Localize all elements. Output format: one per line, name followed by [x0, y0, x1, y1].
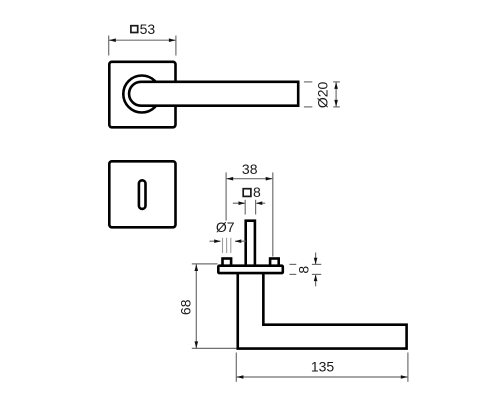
svg-text:Ø20: Ø20 — [315, 81, 331, 108]
svg-text:135: 135 — [311, 358, 335, 374]
svg-text:68: 68 — [178, 299, 194, 315]
svg-text:53: 53 — [140, 21, 156, 37]
svg-text:Ø7: Ø7 — [216, 219, 235, 235]
svg-text:8: 8 — [296, 266, 312, 274]
svg-text:8: 8 — [253, 184, 261, 200]
svg-text:38: 38 — [242, 161, 258, 177]
